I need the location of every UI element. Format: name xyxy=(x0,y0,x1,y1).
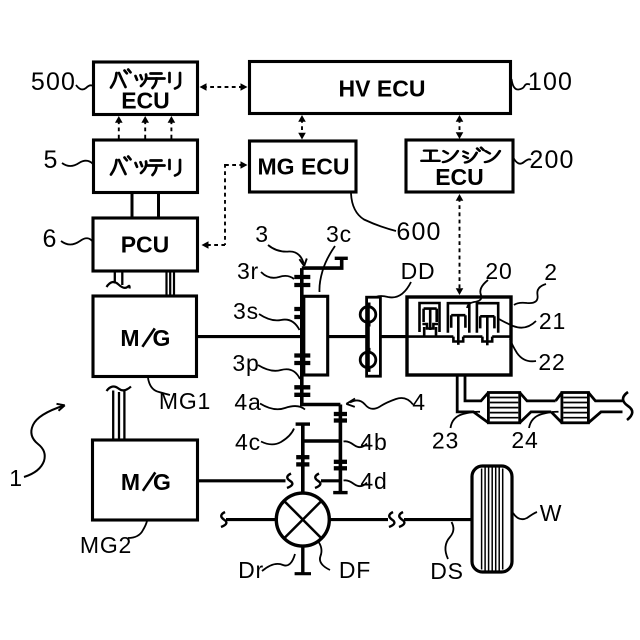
svg-text:4d: 4d xyxy=(360,468,387,494)
damper circle lower xyxy=(360,352,376,368)
triple line MG1 - MG2 with up arrow xyxy=(107,387,132,441)
svg-text:500: 500 xyxy=(31,68,76,96)
damper circle upper xyxy=(360,307,376,323)
damper DD outline xyxy=(367,297,381,376)
break mark xyxy=(287,474,292,489)
svg-text:HV ECU: HV ECU xyxy=(339,76,426,102)
catalytic converter 23 xyxy=(488,393,555,423)
svg-text:MG2: MG2 xyxy=(80,532,132,558)
box M/G MG2 xyxy=(93,440,198,520)
svg-text:24: 24 xyxy=(511,427,538,453)
svg-text:DF: DF xyxy=(339,557,371,583)
svg-text:W: W xyxy=(540,500,563,526)
engine cylinder 2 xyxy=(448,303,469,345)
planetary gear 3 shaft A xyxy=(302,258,348,404)
triple line PCU - MG1 xyxy=(167,272,175,297)
gear 4a ticks xyxy=(294,387,310,395)
carrier 3c rectangle xyxy=(304,296,328,375)
dashed arrows battery - battery ECU (three) xyxy=(115,116,175,139)
MG2 line to 4d xyxy=(321,479,340,482)
svg-text:4: 4 xyxy=(412,389,426,415)
svg-text:3c: 3c xyxy=(326,221,352,247)
svg-text:3s: 3s xyxy=(233,298,259,324)
svg-text:200: 200 xyxy=(529,146,574,174)
gear 4c ticks on shaft C xyxy=(296,457,309,464)
break mark xyxy=(221,512,226,527)
svg-text:ECU: ECU xyxy=(121,88,170,114)
box PCU (6) xyxy=(93,218,198,271)
svg-text:6: 6 xyxy=(42,225,57,253)
svg-text:100: 100 xyxy=(528,68,573,96)
PCU output arrow (down-left with wave) xyxy=(107,272,130,289)
svg-text:21: 21 xyxy=(539,308,566,334)
box M/G MG1 xyxy=(93,296,197,377)
svg-text:MG ECU: MG ECU xyxy=(258,154,350,180)
shaft B bottom cap xyxy=(333,491,347,494)
shaft C top cap xyxy=(296,422,310,425)
damper inner shaft xyxy=(367,303,370,371)
svg-text:1: 1 xyxy=(9,465,23,491)
svg-text:3p: 3p xyxy=(232,350,259,376)
svg-text:3r: 3r xyxy=(237,258,259,284)
break mark xyxy=(315,474,320,489)
svg-text:4a: 4a xyxy=(234,389,261,415)
Dr bottom cap xyxy=(295,572,311,575)
break mark xyxy=(389,512,394,527)
svg-text:G: G xyxy=(153,469,171,495)
engine cylinder 3 xyxy=(477,303,498,345)
differential cross xyxy=(284,501,321,538)
dashed link MG ECU - PCU xyxy=(202,161,248,249)
dashed arrow battery ECU - HV ECU xyxy=(200,83,248,91)
box engine ECU (200) xyxy=(406,140,513,192)
dashed arrow HV ECU - engine ECU xyxy=(456,115,464,139)
engine crank line xyxy=(407,337,511,342)
main shaft MG1 to gear xyxy=(197,335,304,338)
shaft Dr below differential xyxy=(301,546,304,574)
MG2 output line xyxy=(198,479,286,482)
box battery (5) xyxy=(94,140,198,193)
engine cylinder 1 xyxy=(420,303,440,337)
box MG ECU (600) xyxy=(250,141,357,192)
svg-text:20: 20 xyxy=(485,258,512,284)
box battery ECU (500) xyxy=(94,62,198,115)
svg-text:PCU: PCU xyxy=(121,232,170,258)
box HV ECU (100) xyxy=(250,62,511,114)
exhaust pipe from engine xyxy=(457,375,488,423)
counter shaft B xyxy=(339,405,343,493)
svg-text:23: 23 xyxy=(432,428,459,454)
svg-text:4b: 4b xyxy=(360,429,387,455)
svg-text:ECU: ECU xyxy=(435,164,484,190)
svg-text:Dr: Dr xyxy=(238,557,264,583)
svg-text:3: 3 xyxy=(255,221,269,247)
wheel W xyxy=(472,466,512,572)
svg-text:DS: DS xyxy=(430,558,464,584)
gear ticks on shaft B top xyxy=(334,414,347,421)
break mark xyxy=(399,512,404,527)
ring gear 3r ticks xyxy=(294,277,310,285)
engine 2 box xyxy=(407,297,511,375)
svg-text:4c: 4c xyxy=(235,429,261,455)
left axle with break xyxy=(226,518,276,521)
svg-text:2: 2 xyxy=(544,259,558,285)
dashed arrow engine ECU - engine xyxy=(456,194,464,295)
sun gear 3s ticks xyxy=(294,309,310,317)
svg-text:MG1: MG1 xyxy=(159,388,211,414)
double line battery - PCU xyxy=(132,193,159,218)
main shaft damper to engine xyxy=(380,335,407,338)
mesh line 4b-4c xyxy=(303,439,341,442)
differential DF circle xyxy=(276,493,329,546)
final shaft C xyxy=(301,424,305,493)
svg-text:G: G xyxy=(153,325,171,351)
svg-text:5: 5 xyxy=(43,146,58,174)
svg-text:M: M xyxy=(120,325,139,351)
dashed arrow HV ECU - MG ECU xyxy=(298,115,306,140)
svg-text:M: M xyxy=(121,469,140,495)
svg-text:600: 600 xyxy=(396,218,441,246)
exhaust end squiggle xyxy=(623,392,632,420)
pinion gear 3p ticks xyxy=(294,356,310,364)
right axle DS xyxy=(329,518,388,521)
svg-text:DD: DD xyxy=(401,258,436,284)
svg-text:22: 22 xyxy=(538,349,565,375)
catalytic converter 24 xyxy=(551,393,622,423)
gear 4d ticks xyxy=(334,462,347,469)
main shaft carrier to damper xyxy=(328,335,367,338)
